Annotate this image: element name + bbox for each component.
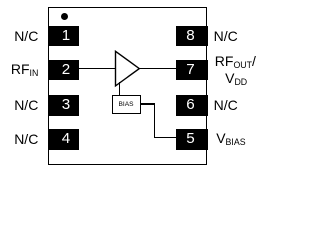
label RFOUT / VDD pin7 line1 xyxy=(215,51,256,71)
wire bias box to corner horizontal xyxy=(141,103,156,104)
label N/C pin4 xyxy=(14,129,38,149)
pin 6 xyxy=(176,95,208,116)
wire pin2 to amplifier input xyxy=(79,68,117,69)
label N/C pin1 xyxy=(14,26,38,46)
pin 3 xyxy=(48,95,79,116)
pin 8 xyxy=(176,26,208,47)
label N/C pin8 xyxy=(214,26,238,46)
pin 5 xyxy=(176,129,208,150)
label N/C pin6 xyxy=(214,95,238,115)
wire corner to pin5 xyxy=(154,137,177,138)
label VDD pin7 line2 xyxy=(225,68,247,88)
package outline U1 xyxy=(48,7,207,165)
pin 2 xyxy=(48,60,79,81)
wire amplifier output to pin7 xyxy=(138,68,176,69)
op-amp U2 amplifier triangle xyxy=(114,50,141,88)
bias box xyxy=(112,95,141,114)
pin 1 marker dot xyxy=(61,13,68,20)
wire corner vertical down xyxy=(154,103,155,137)
pin 7 xyxy=(176,60,208,81)
pin 4 xyxy=(48,129,79,150)
label RFIN pin2 xyxy=(11,59,38,79)
wire amplifier to bias box xyxy=(119,82,120,95)
label N/C pin3 xyxy=(14,95,38,115)
label VBIAS pin5 xyxy=(216,128,245,148)
pin 1 xyxy=(48,26,79,47)
